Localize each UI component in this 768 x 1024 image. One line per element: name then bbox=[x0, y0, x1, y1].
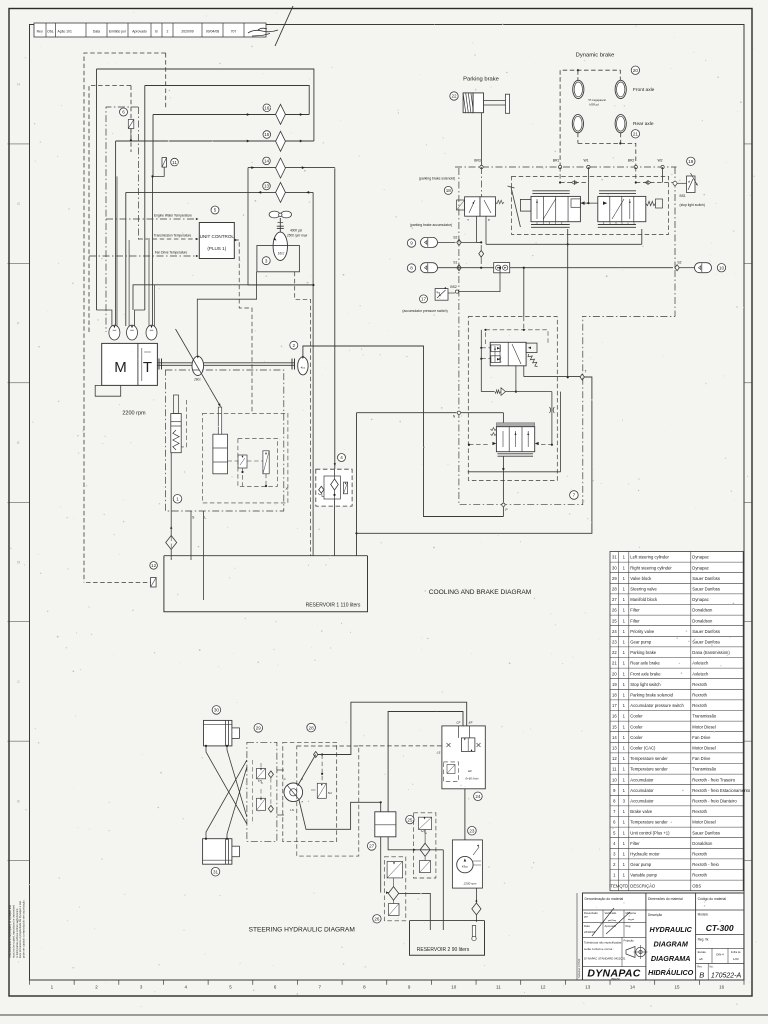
svg-text:a/b: a/b bbox=[699, 957, 703, 961]
cooler 15 symbol bbox=[276, 131, 286, 151]
svg-text:LS: LS bbox=[437, 751, 441, 755]
svg-text:Sauer Danfoss: Sauer Danfoss bbox=[692, 587, 720, 592]
svg-text:3: 3 bbox=[265, 258, 268, 263]
svg-text:HSR µd: HSR µd bbox=[589, 103, 599, 107]
svg-text:RESERVOIR 1 110 liters: RESERVOIR 1 110 liters bbox=[306, 603, 361, 609]
charge filter cylinder bbox=[213, 434, 228, 474]
svg-text:170522-A: 170522-A bbox=[711, 973, 742, 980]
svg-text:00/04/08: 00/04/08 bbox=[206, 30, 219, 34]
svg-text:Dynamic brake: Dynamic brake bbox=[576, 53, 615, 59]
reservoir 1 tank bbox=[164, 556, 368, 612]
svg-text:Denominação do material: Denominação do material bbox=[585, 897, 624, 901]
gear pump 23 bbox=[468, 826, 477, 835]
engine box M T bbox=[102, 343, 158, 385]
svg-text:Fan Drive: Fan Drive bbox=[692, 756, 711, 761]
svg-text:Hydraulic motor: Hydraulic motor bbox=[630, 852, 660, 857]
svg-text:Código do material: Código do material bbox=[698, 897, 727, 901]
svg-text:Rexroth: Rexroth bbox=[692, 852, 707, 857]
gear pump P2 bbox=[298, 357, 308, 375]
svg-text:must not be copied, reproduced: must not be copied, reproduced or transm… bbox=[11, 904, 15, 958]
svg-text:Sauer Danfoss: Sauer Danfoss bbox=[692, 576, 720, 581]
steering cylinder 30 bbox=[212, 706, 221, 715]
svg-text:RESERVOIR 2 90 liters: RESERVOIR 2 90 liters bbox=[417, 947, 470, 953]
svg-text:22: 22 bbox=[612, 650, 617, 655]
svg-text:C: C bbox=[17, 680, 20, 684]
svg-text:27: 27 bbox=[612, 597, 617, 602]
node to stop light switch bbox=[674, 167, 676, 270]
title block frame bbox=[583, 893, 744, 980]
title block left panel bbox=[583, 909, 646, 911]
fan shaft coupling bbox=[279, 218, 281, 232]
sender supply stubs bbox=[97, 310, 112, 326]
svg-text:Accumulator: Accumulator bbox=[630, 777, 654, 782]
svg-text:(parking brake solenoid): (parking brake solenoid) bbox=[419, 177, 455, 181]
svg-text:Temperature sender: Temperature sender bbox=[630, 767, 668, 772]
temperature sender 11 bbox=[162, 158, 167, 168]
svg-text:Accumulator pressure switch: Accumulator pressure switch bbox=[630, 703, 684, 708]
svg-text:Valve block: Valve block bbox=[630, 576, 652, 581]
rear axle brake 21 left bbox=[572, 115, 583, 133]
engine shaft bbox=[157, 362, 192, 364]
svg-text:DYNAPAC STANDARD 0422C31: DYNAPAC STANDARD 0422C31 bbox=[584, 957, 626, 961]
node W1 bbox=[587, 165, 590, 168]
svg-text:Fan Drive Temperature: Fan Drive Temperature bbox=[155, 251, 188, 255]
svg-text:10: 10 bbox=[719, 265, 725, 270]
svg-text:Parking brake: Parking brake bbox=[630, 650, 657, 655]
svg-text:Rexroth - freio: Rexroth - freio bbox=[692, 862, 719, 867]
svg-text:BRASIL: BRASIL bbox=[611, 977, 621, 981]
svg-text:UNIT CONTROL: UNIT CONTROL bbox=[200, 234, 235, 239]
svg-text:Rexroth: Rexroth bbox=[692, 873, 707, 878]
wire cooler line 16 bbox=[153, 114, 309, 116]
svg-text:Modelo: Modelo bbox=[698, 913, 709, 917]
svg-text:HYDRAULIC: HYDRAULIC bbox=[650, 925, 693, 934]
svg-text:21: 21 bbox=[633, 132, 639, 137]
spring accumulator bbox=[171, 414, 181, 453]
svg-text:13: 13 bbox=[585, 984, 591, 989]
bottom ruler bbox=[29, 980, 31, 985]
svg-text:Rexroth - freio Traseiro: Rexroth - freio Traseiro bbox=[692, 777, 735, 782]
svg-text:11: 11 bbox=[496, 984, 501, 989]
svg-text:Donaldson: Donaldson bbox=[692, 841, 713, 846]
svg-text:8: 8 bbox=[410, 266, 413, 271]
svg-text:Front axle: Front axle bbox=[633, 87, 655, 93]
svg-text:Motor Diesel: Motor Diesel bbox=[692, 724, 716, 729]
svg-text:(stop light switch): (stop light switch) bbox=[680, 203, 705, 207]
wire pedal valve to P bbox=[502, 456, 504, 502]
svg-text:24: 24 bbox=[612, 629, 617, 634]
wire dash-dot fan drive temp input bbox=[89, 255, 196, 257]
accumulator 8 bbox=[407, 264, 415, 272]
svg-text:Filter: Filter bbox=[630, 618, 640, 623]
wire fan return to filter 4 bbox=[334, 463, 336, 466]
svg-text:14: 14 bbox=[264, 159, 270, 164]
node BR2 bbox=[634, 165, 637, 168]
svg-text:28: 28 bbox=[612, 587, 617, 592]
svg-text:25: 25 bbox=[407, 817, 413, 822]
parking brake 22 bbox=[450, 92, 458, 100]
svg-text:Rexroth: Rexroth bbox=[692, 693, 707, 698]
valve 29 relief lower bbox=[257, 798, 266, 810]
scan artifact bottom line bbox=[0, 1014, 768, 1016]
node BR3 bbox=[480, 165, 483, 168]
svg-text:BR1: BR1 bbox=[553, 159, 560, 163]
wire dashed sender-12 signal loop bbox=[84, 53, 166, 583]
svg-text:20: 20 bbox=[633, 68, 639, 73]
svg-text:W1: W1 bbox=[583, 159, 588, 163]
svg-text:11: 11 bbox=[612, 767, 617, 772]
svg-text:12: 12 bbox=[541, 984, 547, 989]
svg-text:Rexroth: Rexroth bbox=[692, 809, 707, 814]
steering outer dashed box bbox=[297, 746, 359, 856]
svg-text:Front axle brake: Front axle brake bbox=[630, 671, 661, 676]
relief check on line bbox=[481, 391, 494, 393]
svg-text:Escala: Escala bbox=[698, 950, 707, 954]
svg-text:G: G bbox=[17, 202, 20, 206]
svg-text:5cc: 5cc bbox=[328, 791, 333, 795]
svg-text:Rexroth: Rexroth bbox=[692, 703, 707, 708]
svg-text:Folha de: Folha de bbox=[731, 951, 741, 954]
svg-text:S2: S2 bbox=[453, 235, 457, 239]
svg-text:Rev.: Rev. bbox=[37, 30, 44, 34]
svg-text:22: 22 bbox=[451, 94, 457, 99]
steering N line junction column bbox=[356, 413, 358, 534]
wire dashed sender loop inner bbox=[89, 86, 131, 333]
svg-text:Cooler: Cooler bbox=[630, 735, 643, 740]
svg-text:4000 psi: 4000 psi bbox=[290, 229, 302, 233]
wire BS2 to S1 line bbox=[455, 290, 458, 293]
valve 29 check diamonds bbox=[268, 771, 273, 778]
svg-text:OBS: OBS bbox=[692, 883, 701, 888]
svg-text:Axletech: Axletech bbox=[692, 661, 709, 666]
wire manifold to filter 25 bbox=[388, 837, 443, 850]
brake valve dashed box bbox=[512, 176, 669, 234]
node W2 bbox=[661, 165, 664, 168]
right brake valve body bbox=[598, 196, 646, 221]
suction strainer bbox=[170, 453, 172, 536]
svg-text:serão conforme norma :: serão conforme norma : bbox=[584, 947, 614, 951]
servo valve tall bbox=[263, 451, 269, 474]
svg-text:Parking brake: Parking brake bbox=[463, 77, 499, 83]
brake unit 7 inner dashed box bbox=[468, 317, 557, 481]
solenoid valve 18 bbox=[465, 197, 480, 216]
svg-text:(accumulator pressure switch): (accumulator pressure switch) bbox=[402, 309, 447, 313]
valve 29 relief upper bbox=[257, 768, 266, 778]
parts list table bbox=[610, 552, 743, 891]
engine temperature senders bbox=[109, 325, 120, 340]
left brake valve body bbox=[531, 196, 580, 221]
cooler 13 symbol bbox=[276, 182, 286, 202]
svg-text:16: 16 bbox=[264, 106, 270, 111]
fan circuit box A bbox=[248, 168, 314, 285]
svg-text:Transmission Temperature: Transmission Temperature bbox=[154, 234, 192, 238]
wire parking brake to BR3 bbox=[481, 113, 483, 167]
svg-text:Este documento é propriedade d: Este documento é propriedade da Dynapac … bbox=[18, 900, 22, 958]
svg-text:DIAGRAMA: DIAGRAMA bbox=[651, 954, 691, 963]
wire dash-dot sender 6 signal bbox=[106, 107, 138, 332]
variable pump P1 bbox=[192, 356, 204, 375]
svg-text:Cooler (CAC): Cooler (CAC) bbox=[630, 746, 656, 751]
svg-text:Temperature sender: Temperature sender bbox=[630, 820, 668, 825]
svg-text:13: 13 bbox=[264, 184, 270, 189]
priority valve 24 bbox=[442, 726, 485, 789]
svg-text:Rear axle brake: Rear axle brake bbox=[630, 661, 660, 666]
svg-text:Transmissão: Transmissão bbox=[692, 767, 716, 772]
svg-text:57 megapascal: 57 megapascal bbox=[588, 98, 606, 102]
svg-text:2: 2 bbox=[293, 343, 296, 348]
accumulator pressure switch 17 bbox=[420, 295, 428, 303]
hydraulic motor M3 bbox=[273, 232, 287, 260]
svg-text:Unit control (Plus +1): Unit control (Plus +1) bbox=[630, 830, 670, 835]
charge valve upper bbox=[490, 342, 526, 366]
svg-text:Sauer Danfoss: Sauer Danfoss bbox=[692, 640, 720, 645]
svg-text:30: 30 bbox=[612, 565, 617, 570]
node S1 bbox=[457, 265, 461, 271]
dynamic brake dashed box bbox=[560, 70, 620, 167]
svg-text:Rexroth - freio Estacionamento: Rexroth - freio Estacionamento bbox=[692, 788, 750, 793]
svg-text:31: 31 bbox=[612, 555, 617, 560]
svg-text:Variable pump: Variable pump bbox=[630, 873, 657, 878]
svg-text:Temperature sender: Temperature sender bbox=[630, 756, 668, 761]
svg-text:B: B bbox=[699, 971, 704, 980]
dual check block bbox=[494, 263, 510, 273]
svg-text:16: 16 bbox=[612, 714, 617, 719]
svg-text:Desenhado: Desenhado bbox=[584, 911, 598, 915]
svg-text:Rexroth - freio Dianteiro: Rexroth - freio Dianteiro bbox=[692, 799, 737, 804]
wire T return to tank bbox=[357, 377, 592, 533]
wire steering T return bbox=[299, 800, 381, 829]
accumulator 10 bbox=[679, 267, 694, 269]
revision table bbox=[34, 23, 266, 37]
title block signature scribbles bbox=[592, 908, 630, 936]
svg-text:23: 23 bbox=[469, 828, 475, 833]
node S2 right bbox=[675, 265, 679, 271]
svg-text:19: 19 bbox=[688, 159, 694, 164]
svg-text:Rear axle: Rear axle bbox=[633, 121, 654, 127]
wire charge valve left column bbox=[480, 330, 482, 392]
svg-text:Steering valve: Steering valve bbox=[630, 587, 657, 592]
svg-text:Substitui 170522: Substitui 170522 bbox=[577, 958, 581, 978]
svg-text:Obs.: Obs. bbox=[47, 30, 54, 34]
svg-text:Reg. W.: Reg. W. bbox=[698, 938, 709, 942]
svg-text:COOLING AND BRAKE DIAGRAM: COOLING AND BRAKE DIAGRAM bbox=[429, 589, 532, 596]
svg-text:29: 29 bbox=[256, 726, 262, 731]
svg-text:30: 30 bbox=[214, 708, 220, 713]
wire gear pump 2 output bbox=[303, 346, 504, 517]
svg-text:14: 14 bbox=[612, 735, 617, 740]
svg-text:11: 11 bbox=[172, 160, 177, 165]
svg-text:Data: Data bbox=[584, 924, 590, 928]
wire pump 23 to priority valve bbox=[464, 789, 466, 840]
svg-text:Cooler: Cooler bbox=[630, 714, 643, 719]
svg-text:Transmissão: Transmissão bbox=[692, 714, 716, 719]
left brake valve internals bbox=[536, 199, 538, 219]
svg-text:to third parties without writt: to third parties without written authori… bbox=[15, 908, 19, 958]
svg-text:10: 10 bbox=[612, 777, 617, 782]
wire motor flush to pump bbox=[197, 272, 256, 356]
svg-text:1/20: 1/20 bbox=[733, 957, 739, 961]
svg-text:CF: CF bbox=[456, 720, 460, 724]
svg-text:24: 24 bbox=[475, 794, 481, 799]
svg-text:S2: S2 bbox=[677, 261, 681, 265]
wire cooler line 14 bbox=[248, 167, 335, 169]
svg-text:1: 1 bbox=[176, 497, 179, 502]
svg-text:Dana (transmission): Dana (transmission) bbox=[692, 650, 730, 655]
svg-text:S1: S1 bbox=[453, 261, 457, 265]
svg-text:28: 28 bbox=[309, 725, 315, 730]
pump control box 1 dash-dot bbox=[165, 370, 283, 511]
wire EF line to manifold bbox=[388, 712, 463, 812]
svg-text:24/02/03: 24/02/03 bbox=[583, 930, 595, 934]
cooler 14 symbol bbox=[276, 158, 286, 178]
wire steering pilot dashed bbox=[321, 755, 323, 784]
steering cylinder cross lines bbox=[206, 746, 247, 824]
svg-text:16cc: 16cc bbox=[278, 252, 285, 256]
inner dashed servo box a bbox=[203, 413, 288, 503]
svg-text:Priority valve: Priority valve bbox=[630, 629, 655, 634]
svg-text:DESCRIÇÃO: DESCRIÇÃO bbox=[630, 883, 656, 888]
svg-text:Sauer Danfoss: Sauer Danfoss bbox=[692, 830, 720, 835]
svg-text:No.: No. bbox=[710, 966, 714, 969]
svg-text:(PLUS 1): (PLUS 1) bbox=[207, 246, 226, 251]
svg-text:Axletech: Axletech bbox=[692, 671, 709, 676]
svg-text:Dynapac: Dynapac bbox=[692, 555, 709, 560]
svg-text:28cc: 28cc bbox=[193, 378, 201, 382]
svg-text:(parking brake accumulator): (parking brake accumulator) bbox=[410, 223, 452, 227]
svg-text:Donaldson: Donaldson bbox=[692, 608, 713, 613]
wire cooler supply L1 bbox=[97, 69, 314, 141]
svg-text:19: 19 bbox=[612, 682, 617, 687]
wire to throttle bbox=[551, 392, 553, 445]
svg-text:Sauer Danfoss: Sauer Danfoss bbox=[692, 629, 720, 634]
wire dashed transmission temp input bbox=[138, 238, 196, 240]
valve 29 interconnect dashes bbox=[252, 760, 254, 824]
wire rear brake dash-dot bbox=[582, 270, 675, 316]
svg-text:Engine Water Temperature: Engine Water Temperature bbox=[154, 214, 192, 218]
motor box bbox=[257, 246, 300, 272]
svg-text:12: 12 bbox=[612, 756, 617, 761]
svg-text:DIN-4: DIN-4 bbox=[716, 953, 724, 957]
svg-text:Dynapac: Dynapac bbox=[692, 565, 709, 570]
node P bbox=[502, 503, 505, 506]
filter 26 assembly bbox=[384, 857, 406, 921]
svg-text:Cooler: Cooler bbox=[630, 724, 643, 729]
svg-text:T: T bbox=[584, 370, 586, 374]
substitui strip bbox=[576, 893, 578, 980]
svg-text:Fan Drive: Fan Drive bbox=[692, 735, 711, 740]
wire dashed sender 12 to loop bbox=[86, 582, 151, 584]
svg-text:12: 12 bbox=[151, 563, 157, 568]
svg-text:15: 15 bbox=[612, 724, 617, 729]
svg-text:14: 14 bbox=[630, 984, 636, 989]
fan propeller bbox=[269, 211, 280, 218]
accumulator 9 bbox=[407, 239, 415, 247]
charge valve pilot dashed loop bbox=[486, 330, 549, 344]
svg-text:Tolerâncias não especificadas: Tolerâncias não especificadas bbox=[584, 941, 622, 945]
wire brake supply manifold bbox=[486, 243, 642, 245]
wire servo interconnects bbox=[228, 460, 239, 462]
cooler 16 symbol bbox=[276, 104, 286, 124]
pedal valve pilot dashed bbox=[469, 444, 489, 446]
steering cylinder 31 bbox=[203, 839, 232, 865]
approval signature bbox=[248, 30, 278, 33]
reservoir 2 tank bbox=[410, 921, 485, 956]
svg-text:26: 26 bbox=[374, 917, 380, 922]
svg-text:BR2: BR2 bbox=[628, 159, 635, 163]
svg-text:29: 29 bbox=[612, 576, 617, 581]
svg-text:2200 rpm: 2200 rpm bbox=[122, 411, 146, 417]
check valve between S2 S1 bbox=[479, 250, 484, 257]
svg-text:23: 23 bbox=[612, 640, 617, 645]
svg-text:Donaldson: Donaldson bbox=[692, 618, 713, 623]
wire LS dashed to priority valve bbox=[359, 745, 442, 747]
svg-text:BS2: BS2 bbox=[450, 285, 457, 289]
svg-text:20: 20 bbox=[612, 671, 617, 676]
svg-text:EF: EF bbox=[469, 720, 473, 724]
wire steering P line bbox=[298, 755, 316, 787]
svg-text:Accumulator: Accumulator bbox=[630, 788, 654, 793]
svg-text:18: 18 bbox=[446, 188, 452, 193]
svg-text:Emitido por: Emitido por bbox=[109, 30, 127, 34]
svg-text:2020/09: 2020/09 bbox=[181, 30, 193, 34]
svg-text:2500 rpm max: 2500 rpm max bbox=[286, 234, 308, 238]
svg-text:LS: LS bbox=[290, 808, 294, 812]
svg-text:Brake valve: Brake valve bbox=[630, 809, 653, 814]
steering unit rotor bbox=[284, 783, 303, 802]
svg-text:Manifold block: Manifold block bbox=[630, 597, 658, 602]
svg-text:Parking brake solenoid: Parking brake solenoid bbox=[630, 693, 673, 698]
svg-text:707: 707 bbox=[231, 30, 237, 34]
mid connection W1 bbox=[580, 202, 597, 204]
svg-text:Motor Diesel: Motor Diesel bbox=[692, 820, 716, 825]
svg-text:BR3: BR3 bbox=[474, 159, 481, 163]
svg-text:21: 21 bbox=[612, 661, 617, 666]
filter 4 internals bbox=[324, 476, 340, 499]
wire motor drain dashed bbox=[295, 272, 311, 556]
pump swash arrow bbox=[176, 329, 221, 407]
svg-text:Left steering cylinder: Left steering cylinder bbox=[630, 555, 669, 560]
svg-text:5: 5 bbox=[214, 208, 217, 213]
svg-text:16: 16 bbox=[719, 984, 725, 989]
wire dash-dot engine water temp input bbox=[106, 218, 196, 220]
svg-text:4: 4 bbox=[340, 455, 343, 460]
label front axle bbox=[631, 66, 639, 74]
node BR1 bbox=[559, 165, 562, 168]
svg-text:31: 31 bbox=[213, 869, 219, 874]
wire dash-dot brake pilot main bbox=[455, 166, 677, 168]
svg-text:25: 25 bbox=[612, 618, 617, 623]
svg-text:2: 2 bbox=[167, 30, 169, 34]
svg-text:0+60 l/min: 0+60 l/min bbox=[466, 777, 479, 781]
wire cooler supply L2 bbox=[145, 86, 309, 115]
svg-text:DIAGRAM: DIAGRAM bbox=[654, 939, 689, 948]
wire cooler line 15 bbox=[116, 140, 314, 142]
node N bbox=[457, 411, 460, 414]
manifold block 27 bbox=[375, 812, 396, 837]
svg-text:Stop light switch: Stop light switch bbox=[630, 682, 661, 687]
node T bbox=[580, 374, 584, 380]
wire brake valve outputs down bbox=[567, 229, 569, 377]
filter 25 assembly bbox=[406, 815, 414, 823]
node S2 left bbox=[457, 239, 461, 245]
svg-text:13: 13 bbox=[612, 746, 617, 751]
wire engine coolant to return bbox=[133, 285, 313, 310]
wire N line bbox=[357, 412, 457, 414]
svg-text:9: 9 bbox=[410, 241, 413, 246]
front axle brake 20 right bbox=[615, 80, 626, 98]
svg-text:por: por bbox=[584, 915, 588, 919]
unit control U5 (PLUS 1) bbox=[211, 206, 219, 214]
